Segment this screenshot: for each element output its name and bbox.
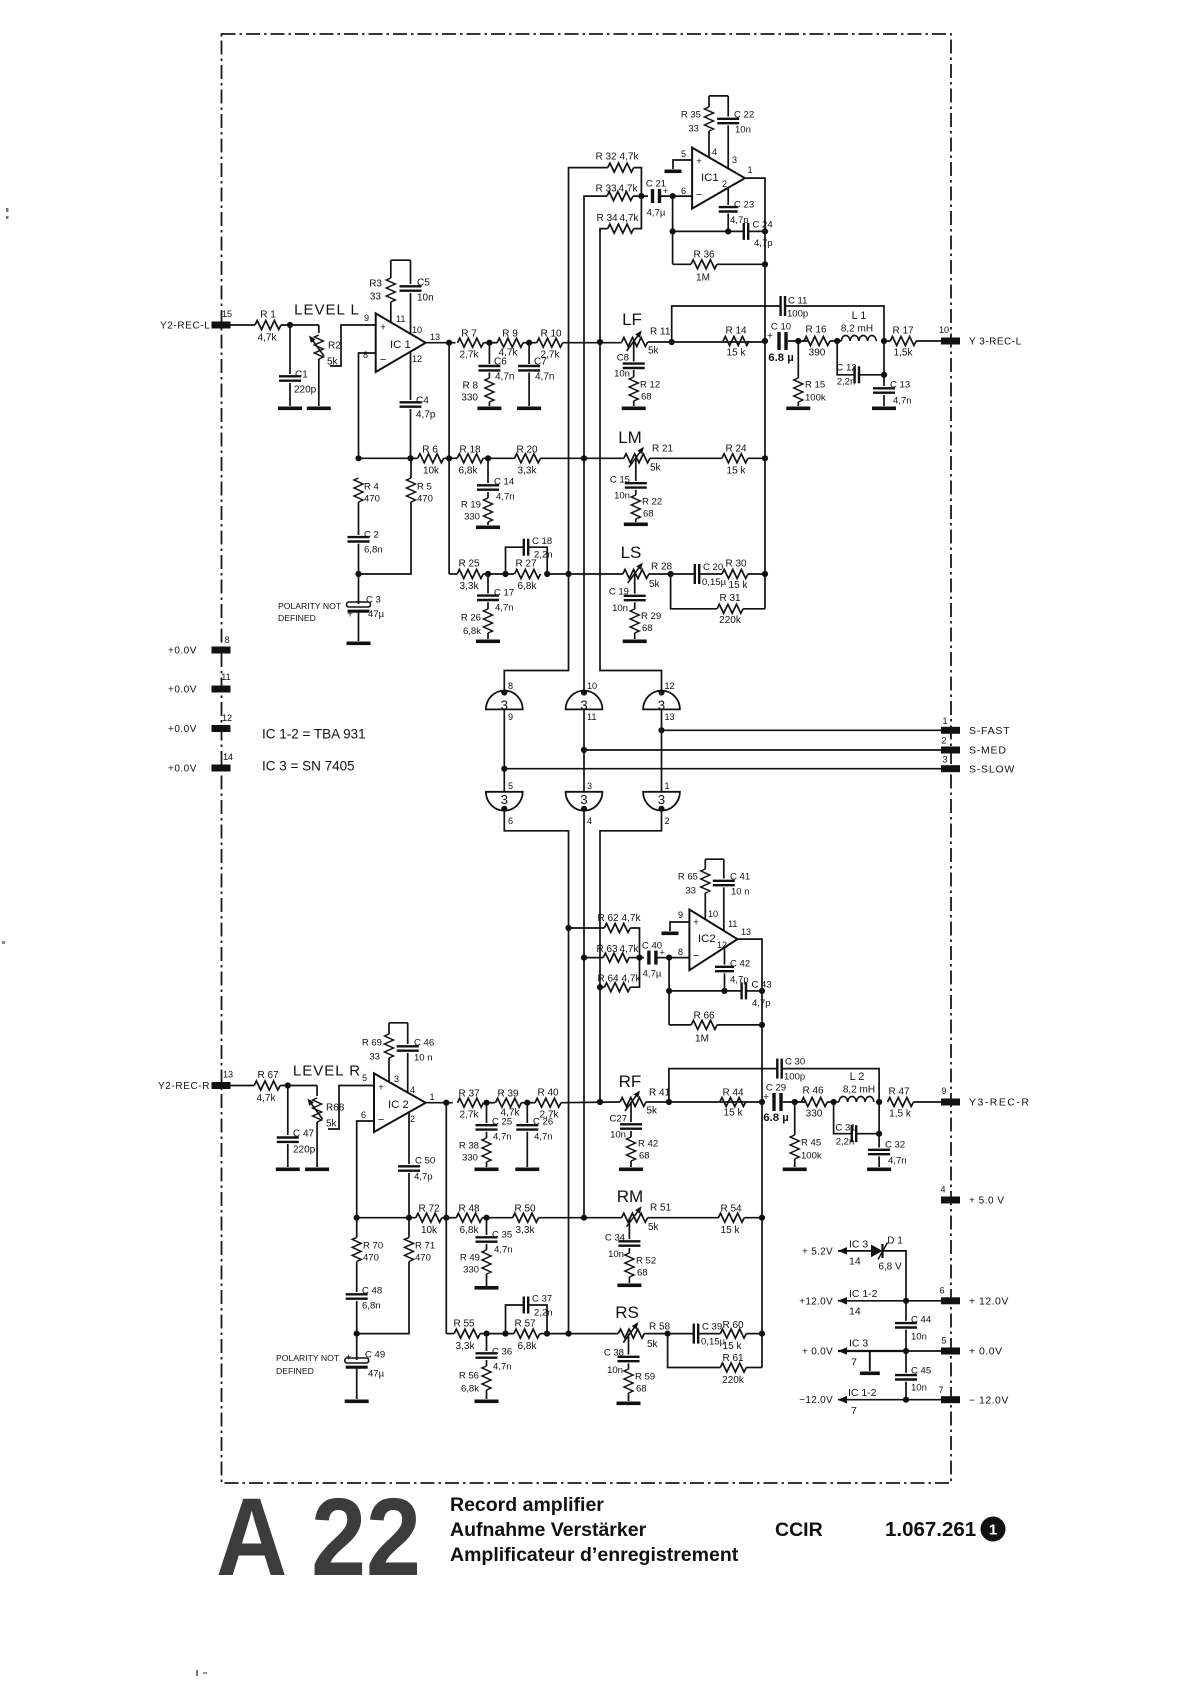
svg-text:15 k: 15 k bbox=[727, 466, 747, 477]
node C48-C49 bbox=[354, 1331, 360, 1337]
ground R2 bbox=[307, 407, 331, 411]
svg-text:2,7k: 2,7k bbox=[460, 350, 480, 361]
svg-text:390: 390 bbox=[809, 348, 826, 359]
svg-text:R 63: R 63 bbox=[596, 944, 618, 955]
svg-text:+ 0.0V: + 0.0V bbox=[802, 1347, 833, 1358]
ground on 0V line bbox=[869, 1351, 871, 1371]
svg-text:3,3k: 3,3k bbox=[456, 1341, 476, 1352]
inductor L2 bbox=[839, 1096, 874, 1102]
node IC1a out bbox=[446, 340, 452, 346]
svg-text:8: 8 bbox=[224, 635, 229, 645]
wire R70-C48 bbox=[356, 1261, 358, 1292]
svg-text:5k: 5k bbox=[648, 1222, 660, 1233]
svg-text:10 n: 10 n bbox=[731, 886, 750, 897]
wire S-MED bbox=[584, 749, 941, 751]
wire R69-C46 bridge bbox=[389, 1022, 408, 1024]
svg-text:R 60: R 60 bbox=[722, 1320, 744, 1331]
svg-text:R 25: R 25 bbox=[458, 559, 480, 570]
svg-text:1: 1 bbox=[748, 165, 753, 175]
node IC2a out bbox=[443, 1100, 449, 1106]
svg-text:10n: 10n bbox=[608, 1249, 624, 1260]
wire R7-R9 bbox=[484, 342, 498, 344]
svg-text:L 2: L 2 bbox=[850, 1071, 865, 1083]
svg-text:10: 10 bbox=[412, 325, 422, 335]
gate IC3b bbox=[566, 691, 603, 710]
wire R30 to bus bbox=[748, 573, 765, 575]
ground R42 bbox=[619, 1168, 643, 1172]
wire RM row left bbox=[357, 1217, 416, 1219]
svg-text:5: 5 bbox=[681, 149, 686, 159]
svg-text:7: 7 bbox=[938, 1385, 943, 1395]
svg-text:10 n: 10 n bbox=[414, 1052, 433, 1063]
node RS-bus bbox=[759, 1331, 765, 1337]
ground C26 bbox=[515, 1168, 539, 1172]
svg-text:10n: 10n bbox=[911, 1331, 927, 1342]
svg-text:R 11: R 11 bbox=[650, 327, 671, 338]
svg-text:R 44: R 44 bbox=[722, 1088, 744, 1099]
svg-text:−: − bbox=[380, 354, 386, 366]
node C35 bbox=[483, 1215, 489, 1221]
svg-text:4,7p: 4,7p bbox=[416, 410, 436, 421]
svg-text:100p: 100p bbox=[787, 308, 808, 319]
title revision circle bbox=[981, 1517, 1006, 1542]
inductor L1 bbox=[841, 335, 876, 341]
wire R65-C41 bridge bbox=[705, 858, 724, 860]
svg-text:2,7k: 2,7k bbox=[540, 1110, 560, 1121]
capacitor C39 bbox=[693, 1324, 695, 1344]
node RS tap bbox=[565, 1331, 571, 1337]
svg-text:C 23: C 23 bbox=[734, 199, 754, 210]
svg-text:6: 6 bbox=[361, 1110, 366, 1120]
ground C13 bbox=[872, 407, 896, 411]
node LM tap bbox=[581, 455, 587, 461]
ground R29 bbox=[623, 640, 647, 644]
wire gate4 down to v1 bbox=[504, 810, 568, 1333]
svg-text:9: 9 bbox=[941, 1086, 946, 1096]
svg-text:10n: 10n bbox=[614, 490, 630, 501]
svg-text:R 55: R 55 bbox=[453, 1319, 475, 1330]
terminal 13 Y2-REC-R bbox=[212, 1082, 231, 1089]
svg-text:C4: C4 bbox=[416, 396, 429, 407]
wire R32 right bbox=[634, 168, 642, 197]
svg-text:6: 6 bbox=[939, 1286, 944, 1296]
ground R45 bbox=[783, 1168, 807, 1172]
ground C32 bbox=[867, 1168, 891, 1172]
node gate2 pin10 bbox=[581, 689, 587, 695]
ground C49 bbox=[345, 1400, 369, 1404]
op-amp IC1 input stage bbox=[376, 313, 426, 372]
node bus LF bbox=[762, 338, 768, 344]
node L1 left bbox=[834, 338, 840, 344]
svg-text:10n: 10n bbox=[417, 293, 434, 304]
svg-text:8,2 mH: 8,2 mH bbox=[843, 1085, 875, 1096]
svg-text:7: 7 bbox=[851, 1358, 857, 1369]
svg-text:470: 470 bbox=[417, 493, 433, 504]
resistor R57 bbox=[514, 1329, 540, 1338]
svg-text:33: 33 bbox=[685, 885, 696, 896]
svg-text:C 34: C 34 bbox=[605, 1232, 626, 1243]
node after R11 bbox=[669, 339, 675, 345]
svg-text:R 59: R 59 bbox=[635, 1371, 655, 1382]
resistor R72 bbox=[416, 1213, 442, 1222]
svg-text:3: 3 bbox=[587, 781, 592, 791]
capacitor C4 bbox=[410, 352, 412, 401]
resistor R4 bbox=[354, 478, 363, 502]
potentiometer R2 bbox=[318, 325, 320, 333]
svg-text:1M: 1M bbox=[696, 273, 710, 284]
svg-text:4,7k: 4,7k bbox=[620, 152, 640, 163]
wire v2 gates bbox=[583, 458, 585, 691]
speck left margin bbox=[6, 208, 9, 212]
svg-text:15 k: 15 k bbox=[729, 580, 749, 591]
resistor R17 bbox=[890, 337, 916, 346]
wire fb line1 R bbox=[669, 990, 742, 992]
node fb1 bus bbox=[762, 228, 768, 234]
svg-text:−12.0V: −12.0V bbox=[799, 1395, 833, 1406]
svg-text:+: + bbox=[378, 1083, 384, 1094]
arrow -12.0V bbox=[838, 1396, 847, 1404]
node fb1 bbox=[670, 228, 676, 234]
svg-text:+ 12.0V: + 12.0V bbox=[969, 1296, 1009, 1307]
capacitor C46 bbox=[407, 1023, 409, 1044]
svg-text:R 69: R 69 bbox=[362, 1037, 382, 1048]
svg-text:+: + bbox=[696, 157, 702, 168]
svg-text:5: 5 bbox=[362, 1073, 367, 1083]
node R66 bus bbox=[759, 1022, 765, 1028]
ground C1 bbox=[278, 407, 302, 411]
svg-text:R 35: R 35 bbox=[681, 109, 701, 120]
svg-text:33: 33 bbox=[688, 123, 699, 134]
svg-text:R 27: R 27 bbox=[515, 559, 537, 570]
wire R21 to R24 bbox=[650, 457, 722, 459]
node C17 bbox=[485, 571, 491, 577]
svg-text:6,8k: 6,8k bbox=[518, 581, 538, 592]
svg-text:R 65: R 65 bbox=[678, 871, 698, 882]
wire R37-R39 bbox=[484, 1102, 496, 1104]
capacitor C18 bypass bbox=[506, 547, 524, 574]
svg-text:3: 3 bbox=[501, 792, 508, 807]
node after R41 bbox=[666, 1099, 672, 1105]
svg-text:S-SLOW: S-SLOW bbox=[969, 764, 1015, 775]
svg-text:Y2-REC-R: Y2-REC-R bbox=[158, 1081, 210, 1092]
svg-text:6,8 V: 6,8 V bbox=[878, 1262, 902, 1273]
node gate6 pin2 bbox=[658, 806, 664, 812]
wire v1 to gate1 bbox=[504, 574, 568, 691]
arrow +12.0V bbox=[838, 1297, 847, 1305]
svg-text:6: 6 bbox=[681, 186, 686, 196]
svg-text:+ 5.2V: + 5.2V bbox=[802, 1246, 833, 1257]
svg-text:4,7k: 4,7k bbox=[501, 1108, 521, 1119]
ground R12 bbox=[622, 407, 646, 411]
wire R4-C2 bbox=[358, 502, 360, 535]
wire R48-R50 bbox=[482, 1217, 512, 1219]
wire R2 wiper to op-amp + bbox=[330, 325, 376, 366]
node S-SLOW tap bbox=[501, 766, 507, 772]
svg-text:R 8: R 8 bbox=[462, 381, 478, 392]
svg-text:D 1: D 1 bbox=[887, 1236, 903, 1247]
capacitor C8 bbox=[633, 342, 635, 362]
wire R67 to junction bbox=[280, 1085, 317, 1087]
svg-text:5k: 5k bbox=[326, 1119, 338, 1130]
svg-text:R 26: R 26 bbox=[461, 612, 481, 623]
svg-text:5k: 5k bbox=[647, 1339, 659, 1350]
svg-text:R 1: R 1 bbox=[260, 310, 276, 321]
terminal 1 S-FAST bbox=[941, 727, 960, 734]
wire R60 to bus bbox=[746, 1333, 762, 1335]
svg-text:POLARITY NOT: POLARITY NOT bbox=[276, 1353, 340, 1363]
svg-text:C 12: C 12 bbox=[836, 362, 856, 373]
resistor R48 bbox=[456, 1213, 482, 1222]
capacitor C27 bbox=[630, 1102, 632, 1122]
capacitor C12 branch bbox=[837, 341, 854, 375]
svg-text:6,8k: 6,8k bbox=[459, 466, 479, 477]
svg-text:47µ: 47µ bbox=[368, 1368, 385, 1379]
node C18 left bbox=[502, 571, 508, 577]
capacitor C6 bbox=[488, 343, 490, 364]
resistor R42 bbox=[627, 1137, 636, 1161]
potentiometer R21 LM bbox=[624, 454, 650, 463]
svg-text:8: 8 bbox=[363, 350, 368, 360]
svg-text:4,7k: 4,7k bbox=[622, 974, 642, 985]
resistor R9 bbox=[497, 338, 523, 347]
wire input to R1 bbox=[230, 324, 255, 326]
resistor R10 bbox=[537, 338, 563, 347]
svg-text:220k: 220k bbox=[722, 1375, 745, 1386]
wire to R71 bottom bbox=[357, 1261, 409, 1333]
svg-text:15 k: 15 k bbox=[723, 1341, 743, 1352]
svg-text:C 18: C 18 bbox=[532, 536, 552, 547]
resistor R27 bbox=[515, 570, 541, 579]
resistor R6 bbox=[418, 454, 444, 463]
node after R28 bbox=[668, 571, 674, 577]
wire IC2b out bbox=[738, 939, 763, 1367]
svg-text:C 48: C 48 bbox=[362, 1285, 382, 1296]
svg-text:C 31: C 31 bbox=[835, 1122, 855, 1133]
capacitor C29 electrolytic bbox=[772, 1093, 775, 1111]
capacitor C42 bbox=[724, 948, 726, 965]
svg-text:R 46: R 46 bbox=[802, 1086, 824, 1097]
potentiometer R68 bbox=[316, 1086, 318, 1097]
svg-text:R 48: R 48 bbox=[458, 1204, 480, 1215]
wire R51 to R54 bbox=[648, 1217, 719, 1219]
svg-text:2: 2 bbox=[722, 179, 727, 189]
wire gate2 to gate5 bbox=[583, 709, 585, 791]
ground R68 bbox=[305, 1168, 329, 1172]
terminal 2 S-MED bbox=[941, 747, 960, 754]
svg-text:R 47: R 47 bbox=[888, 1087, 910, 1098]
resistor R8 bbox=[485, 378, 494, 402]
node minus-loop R70 bbox=[354, 1215, 360, 1221]
wire R24 to bus bbox=[748, 457, 765, 459]
node after C40 bbox=[666, 955, 672, 961]
svg-text:IC 3 = SN 7405: IC 3 = SN 7405 bbox=[262, 759, 355, 774]
node after C21 bbox=[670, 193, 676, 199]
capacitor C49 electrolytic bbox=[356, 1334, 358, 1360]
wire gate6 down to v3 bbox=[600, 810, 662, 1102]
resistor R59 bbox=[624, 1369, 633, 1393]
svg-text:IC 2: IC 2 bbox=[388, 1099, 409, 1111]
ground C47 bbox=[276, 1168, 300, 1172]
arrow +0.0V bbox=[838, 1347, 847, 1355]
terminal 10 Y3-REC-L bbox=[941, 338, 960, 345]
svg-text:IC 3: IC 3 bbox=[849, 1339, 868, 1350]
svg-text:+0.0V: +0.0V bbox=[168, 724, 197, 735]
svg-text:4: 4 bbox=[940, 1185, 945, 1195]
wire C11 branch up bbox=[672, 306, 781, 342]
node after R67 bbox=[285, 1082, 291, 1088]
capacitor C50 bbox=[408, 1112, 410, 1164]
svg-text:R 42: R 42 bbox=[638, 1138, 658, 1149]
terminal 15 Y2-REC-L bbox=[212, 322, 231, 329]
wire R6 row left bbox=[359, 457, 418, 459]
svg-text:DEFINED: DEFINED bbox=[276, 1366, 314, 1376]
svg-text:−: − bbox=[696, 189, 702, 201]
wire R63 left bbox=[584, 957, 603, 959]
svg-text:R 4: R 4 bbox=[364, 481, 380, 492]
svg-text:C 22: C 22 bbox=[734, 109, 754, 120]
resistor R1 bbox=[255, 321, 281, 330]
svg-text:C 41: C 41 bbox=[730, 871, 750, 882]
resistor R60 bbox=[720, 1329, 746, 1338]
wire fb down bbox=[672, 196, 674, 264]
capacitor C45 bbox=[905, 1351, 907, 1373]
resistor R14 bbox=[723, 337, 749, 346]
node S-FAST tap bbox=[658, 727, 664, 733]
svg-text:4,7n: 4,7n bbox=[494, 1244, 513, 1255]
capacitor C48 bbox=[346, 1293, 368, 1295]
terminal 14 +0.0V bbox=[212, 765, 231, 772]
svg-text:5k: 5k bbox=[648, 346, 660, 357]
resistor R34 bbox=[608, 224, 634, 233]
svg-text:6.8 µ: 6.8 µ bbox=[763, 1112, 789, 1124]
svg-text:10: 10 bbox=[708, 909, 718, 919]
wire LS row left bbox=[449, 573, 457, 575]
svg-text:R 20: R 20 bbox=[516, 445, 538, 456]
svg-text:R 51: R 51 bbox=[650, 1203, 672, 1214]
wire C30 to L2 right bbox=[782, 1069, 879, 1102]
node RM-bus bbox=[759, 1215, 765, 1221]
svg-text:1,5k: 1,5k bbox=[894, 348, 914, 359]
svg-text:68: 68 bbox=[643, 508, 654, 519]
svg-text:R 45: R 45 bbox=[801, 1137, 821, 1148]
wire R58 to C39 bbox=[644, 1333, 694, 1335]
svg-text:C8: C8 bbox=[617, 352, 629, 363]
svg-text:R 32: R 32 bbox=[595, 152, 617, 163]
terminal 3 S-SLOW bbox=[941, 765, 960, 772]
svg-text:68: 68 bbox=[642, 623, 653, 634]
resistor R61 bypass bbox=[668, 1334, 721, 1368]
svg-text:LS: LS bbox=[621, 543, 642, 562]
capacitor C2 bbox=[348, 536, 370, 538]
ground R49 bbox=[475, 1286, 499, 1290]
wire IC1a minus loop bbox=[359, 353, 376, 458]
resistor R71 bbox=[405, 1237, 414, 1261]
svg-text:1M: 1M bbox=[695, 1034, 709, 1045]
node gate1 pin8 bbox=[501, 689, 507, 695]
svg-text:3,3k: 3,3k bbox=[516, 1225, 536, 1236]
svg-text:DEFINED: DEFINED bbox=[278, 613, 316, 623]
svg-text:RS: RS bbox=[615, 1303, 639, 1322]
svg-text:1.067.261: 1.067.261 bbox=[885, 1518, 976, 1541]
svg-text:IC 1-2: IC 1-2 bbox=[849, 1289, 878, 1300]
svg-text:C 3: C 3 bbox=[366, 594, 381, 605]
svg-text:C 42: C 42 bbox=[730, 958, 750, 969]
ground R15 bbox=[786, 407, 810, 411]
terminal 8 +0.0V bbox=[212, 647, 231, 654]
node R64 v3 bbox=[597, 984, 603, 990]
resistor R66 bbox=[691, 1020, 717, 1029]
potentiometer R51 RM bbox=[622, 1213, 648, 1222]
resistor R52 bbox=[625, 1253, 634, 1277]
svg-text:47µ: 47µ bbox=[368, 609, 385, 620]
svg-text:6,8k: 6,8k bbox=[460, 1225, 480, 1236]
resistor R18 bbox=[457, 454, 483, 463]
svg-text:100p: 100p bbox=[784, 1071, 805, 1082]
svg-text:C 39: C 39 bbox=[702, 1321, 722, 1332]
svg-text:C 17: C 17 bbox=[494, 587, 514, 598]
svg-text:R 6: R 6 bbox=[422, 445, 438, 456]
svg-text:12: 12 bbox=[222, 713, 232, 723]
wire R39-R40 bbox=[521, 1102, 535, 1104]
capacitor C5 bbox=[410, 260, 412, 284]
svg-text:4,7k: 4,7k bbox=[499, 348, 519, 359]
svg-text:Y2-REC-L: Y2-REC-L bbox=[160, 321, 210, 332]
svg-text:15: 15 bbox=[222, 309, 232, 319]
svg-text:Y 3-REC-L: Y 3-REC-L bbox=[969, 337, 1022, 348]
wire 0V to terminal bbox=[906, 1350, 941, 1352]
resistor R50 bbox=[513, 1213, 539, 1222]
svg-text:4,7n: 4,7n bbox=[495, 372, 514, 383]
svg-text:14: 14 bbox=[849, 1307, 861, 1318]
svg-text:R68: R68 bbox=[326, 1103, 345, 1114]
border frame (dash-dot) bbox=[222, 34, 952, 1483]
wire R17 to output terminal bbox=[916, 340, 941, 342]
svg-text:4: 4 bbox=[712, 147, 717, 157]
gate IC3e bbox=[566, 792, 603, 811]
svg-text:+ 5.0 V: + 5.0 V bbox=[969, 1196, 1004, 1207]
ground R26 bbox=[476, 640, 500, 644]
svg-text:C 29: C 29 bbox=[766, 1082, 786, 1093]
svg-text:R 38: R 38 bbox=[459, 1140, 479, 1151]
resistor R65 bbox=[704, 859, 706, 869]
svg-text:R 16: R 16 bbox=[805, 325, 827, 336]
wire -12V to terminal bbox=[906, 1399, 941, 1401]
svg-text:C1: C1 bbox=[295, 370, 308, 381]
svg-text:S-FAST: S-FAST bbox=[969, 726, 1010, 737]
wire C21 to minus bbox=[661, 195, 692, 197]
capacitor C38 bbox=[628, 1334, 630, 1355]
wire R9-R10 bbox=[523, 342, 537, 344]
svg-text:10: 10 bbox=[939, 325, 949, 335]
resistor R38 bbox=[482, 1138, 491, 1162]
speck bottom left bbox=[196, 1670, 198, 1676]
svg-text:−: − bbox=[693, 950, 699, 962]
svg-text:1: 1 bbox=[989, 1521, 997, 1538]
wire R55-R57 bbox=[480, 1333, 514, 1335]
ground R52 bbox=[617, 1284, 641, 1288]
ground R8 bbox=[477, 407, 501, 411]
svg-text:R 24: R 24 bbox=[725, 444, 747, 455]
svg-text:5k: 5k bbox=[650, 463, 662, 474]
svg-text:33: 33 bbox=[370, 292, 382, 303]
capacitor C43 bbox=[740, 982, 742, 999]
gate IC3a bbox=[486, 691, 523, 710]
capacitor C26 bbox=[526, 1103, 528, 1123]
potentiometer R28 LS bbox=[623, 570, 649, 579]
svg-text:470: 470 bbox=[363, 1252, 379, 1263]
node RF tap bbox=[597, 1099, 603, 1105]
ground C7 bbox=[517, 407, 541, 411]
